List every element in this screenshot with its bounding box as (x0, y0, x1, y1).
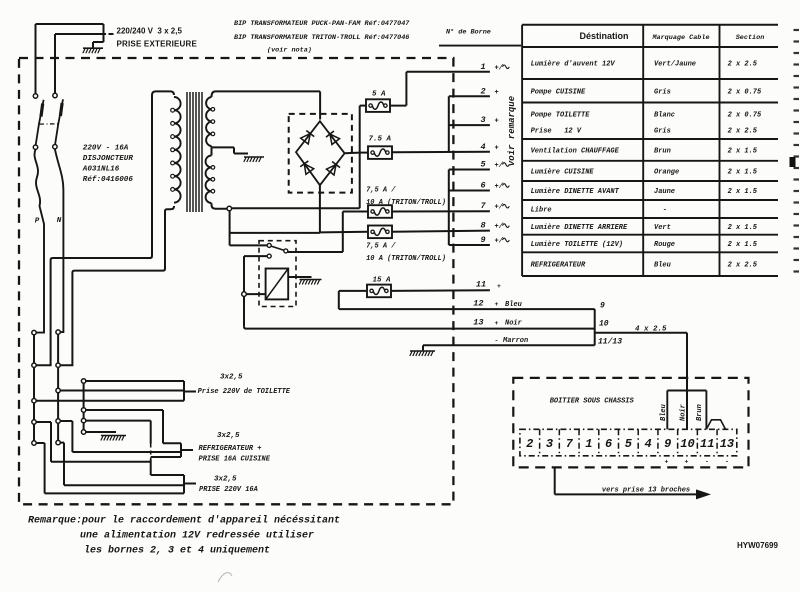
svg-text:11: 11 (476, 280, 486, 290)
svg-text:2 x 2.5: 2 x 2.5 (728, 61, 758, 69)
svg-text:Lumière TOILETTE (12V): Lumière TOILETTE (12V) (531, 241, 623, 249)
svg-text:HYW07699: HYW07699 (737, 541, 778, 550)
svg-text:+: + (495, 145, 499, 153)
svg-text:N° de Borne: N° de Borne (446, 28, 491, 37)
svg-text:Rouge: Rouge (654, 241, 675, 249)
svg-text:Orange: Orange (654, 168, 679, 176)
svg-text:voir remarque: voir remarque (507, 95, 517, 166)
svg-text:Noir: Noir (505, 320, 523, 328)
svg-text:BIP TRANSFORMATEUR PUCK-PAN-FA: BIP TRANSFORMATEUR PUCK-PAN-FAM Réf:0477… (234, 20, 410, 28)
svg-text:A031NL16: A031NL16 (82, 166, 120, 174)
svg-text:+/: +/ (495, 183, 504, 191)
svg-text:3: 3 (480, 115, 485, 125)
svg-text:les bornes 2, 3 et 4 uniquemen: les bornes 2, 3 et 4 uniquement (84, 545, 270, 557)
svg-text:8: 8 (480, 221, 485, 231)
svg-text:3x2,5: 3x2,5 (220, 374, 243, 382)
svg-text:13: 13 (720, 437, 734, 451)
svg-text:-: - (725, 459, 729, 466)
svg-text:Bleu: Bleu (654, 262, 672, 270)
svg-text:-: - (705, 459, 709, 466)
svg-text:PRISE 16A CUISINE: PRISE 16A CUISINE (199, 455, 271, 463)
svg-text:9: 9 (664, 437, 671, 451)
svg-text:REFRIGERATEUR +: REFRIGERATEUR + (199, 445, 262, 453)
svg-text:PRISE 220V 16A: PRISE 220V 16A (199, 486, 258, 494)
svg-text:2 x 1.5: 2 x 1.5 (728, 168, 758, 176)
svg-text:11/13: 11/13 (598, 338, 622, 347)
svg-text:Jaune: Jaune (654, 188, 675, 196)
svg-text:Lumière CUISINE: Lumière CUISINE (531, 168, 595, 176)
svg-text:15 A: 15 A (373, 276, 392, 284)
svg-text:3: 3 (546, 437, 553, 451)
svg-text:+: + (495, 89, 499, 97)
svg-text:5: 5 (625, 437, 633, 451)
svg-text:Bleu: Bleu (505, 301, 523, 309)
svg-text:6: 6 (605, 437, 612, 451)
svg-text:BIP TRANSFORMATEUR TRITON-TROL: BIP TRANSFORMATEUR TRITON-TROLL Réf:0477… (234, 34, 409, 42)
svg-text:Pompe TOILETTE: Pompe TOILETTE (531, 112, 591, 120)
svg-text:2 x 1.5: 2 x 1.5 (728, 188, 758, 196)
svg-text:Prise 220V de TOILETTE: Prise 220V de TOILETTE (198, 388, 291, 396)
svg-text:7,5 A /: 7,5 A / (366, 186, 396, 194)
svg-text:10 A (TRITON/TROLL): 10 A (TRITON/TROLL) (366, 255, 446, 263)
svg-text:Déstination: Déstination (579, 31, 628, 41)
svg-text:4 x 2.5: 4 x 2.5 (635, 326, 667, 334)
svg-text:7: 7 (480, 201, 486, 211)
svg-text:Noir: Noir (680, 403, 688, 421)
svg-text:2 x 0.75: 2 x 0.75 (728, 88, 762, 96)
svg-text:+/: +/ (495, 162, 504, 170)
svg-text:Brun: Brun (654, 147, 671, 155)
svg-text:Lumière DINETTE ARRIERE: Lumière DINETTE ARRIERE (531, 224, 628, 232)
svg-text:2: 2 (480, 86, 485, 96)
svg-text:6: 6 (480, 181, 485, 191)
svg-text:Gris: Gris (654, 128, 671, 136)
svg-text:(voir nota): (voir nota) (267, 47, 312, 55)
svg-text:P: P (35, 218, 40, 226)
svg-text:Réf:0416006: Réf:0416006 (83, 176, 134, 184)
svg-text:2 x 2.5: 2 x 2.5 (728, 128, 758, 136)
svg-text:5 A: 5 A (372, 91, 386, 99)
svg-text:12: 12 (473, 299, 483, 309)
svg-text:4: 4 (644, 437, 651, 451)
svg-text:2: 2 (526, 437, 533, 451)
svg-text:Vert: Vert (654, 224, 671, 232)
svg-text:+/: +/ (495, 204, 504, 212)
svg-text:2 x 2.5: 2 x 2.5 (728, 262, 758, 270)
svg-text:+/: +/ (495, 238, 504, 246)
svg-text:Marron: Marron (502, 337, 528, 345)
svg-text:2 x 0.75: 2 x 0.75 (728, 112, 762, 120)
svg-text:220V - 16A: 220V - 16A (83, 145, 129, 153)
svg-text:4: 4 (480, 142, 485, 152)
svg-text:7,5 A /: 7,5 A / (366, 242, 396, 250)
svg-text:+: + (497, 283, 501, 290)
svg-text:9: 9 (600, 302, 605, 311)
svg-text:10: 10 (680, 437, 694, 451)
svg-text:Blanc: Blanc (654, 112, 675, 120)
svg-text:Vert/Jaune: Vert/Jaune (654, 61, 696, 69)
svg-text:3x2,5: 3x2,5 (217, 432, 240, 440)
svg-text:Lumière DINETTE AVANT: Lumière DINETTE AVANT (531, 188, 620, 196)
svg-text:Ventilation CHAUFFAGE: Ventilation CHAUFFAGE (531, 147, 620, 155)
svg-text:+: + (495, 301, 499, 308)
svg-text:Libre: Libre (531, 207, 552, 215)
svg-text:9: 9 (480, 235, 485, 245)
svg-text:Section: Section (736, 34, 765, 42)
svg-text:5: 5 (480, 160, 485, 170)
svg-text:2 x 1.5: 2 x 1.5 (728, 241, 758, 249)
svg-text:11: 11 (700, 437, 714, 451)
svg-text:vers prise 13 broches: vers prise 13 broches (602, 487, 690, 495)
svg-text:+/: +/ (495, 64, 504, 72)
svg-text:une alimentation 12V redressée: une alimentation 12V redressée utiliser (80, 530, 314, 542)
svg-text:Prise 12 V: Prise 12 V (531, 128, 582, 136)
svg-text:+: + (495, 118, 499, 126)
svg-text:10: 10 (599, 320, 609, 329)
svg-text:Brun: Brun (696, 404, 704, 421)
svg-text:PRISE EXTERIEURE: PRISE EXTERIEURE (117, 40, 198, 49)
svg-text:Bleu: Bleu (660, 403, 668, 421)
svg-text:-: - (495, 338, 499, 345)
svg-text:2 x 1.5: 2 x 1.5 (728, 224, 758, 232)
svg-text:7.5 A: 7.5 A (369, 136, 392, 144)
svg-text:10 A (TRITON/TROLL): 10 A (TRITON/TROLL) (366, 199, 446, 207)
svg-text:220/240 V 3 x 2,5: 220/240 V 3 x 2,5 (117, 27, 183, 36)
svg-text:Pompe CUISINE: Pompe CUISINE (531, 88, 586, 96)
svg-text:7: 7 (566, 437, 574, 451)
svg-text:2 x 1.5: 2 x 1.5 (728, 147, 758, 155)
svg-text:1: 1 (585, 437, 592, 451)
svg-text:N: N (57, 217, 62, 225)
svg-text:Gris: Gris (654, 88, 671, 96)
svg-text:Marquage Cable: Marquage Cable (651, 34, 709, 42)
svg-text:-: - (663, 207, 667, 215)
svg-text:+/: +/ (495, 223, 504, 231)
svg-text:+: + (685, 459, 689, 466)
svg-text:REFRIGERATEUR: REFRIGERATEUR (531, 262, 586, 270)
svg-text:Lumière d'auvent 12V: Lumière d'auvent 12V (531, 61, 616, 69)
svg-text:DISJONCTEUR: DISJONCTEUR (83, 155, 134, 163)
svg-text:+: + (665, 459, 669, 466)
svg-text:3x2,5: 3x2,5 (214, 476, 237, 484)
svg-text:BOITIER SOUS CHASSIS: BOITIER SOUS CHASSIS (550, 398, 635, 406)
svg-text:+: + (495, 320, 499, 327)
svg-text:Remarque:pour le raccordement: Remarque:pour le raccordement d'appareil… (28, 515, 340, 527)
svg-text:1: 1 (480, 62, 485, 72)
svg-text:13: 13 (473, 318, 483, 328)
